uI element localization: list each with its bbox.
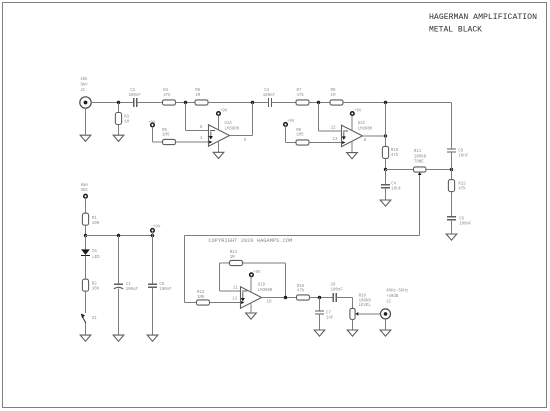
resistor R2 — [82, 279, 88, 291]
svg-text:D1: D1 — [92, 248, 97, 254]
capacitor C4 — [381, 185, 390, 188]
connector J2 output jack — [381, 309, 391, 319]
op-amp U1D LM3900 — [241, 287, 262, 308]
potentiometer R16 LEVEL — [350, 308, 355, 319]
svg-text:100nF: 100nF — [263, 92, 275, 98]
svg-text:13: 13 — [333, 136, 338, 142]
wire down to C7 — [319, 298, 321, 312]
capacitor C6 — [447, 217, 456, 220]
junction U1A feedback node — [184, 101, 187, 104]
svg-text:+9V: +9V — [153, 224, 160, 230]
svg-text:47k: 47k — [391, 152, 398, 158]
junction R3 node — [117, 101, 120, 104]
resistor R5 — [163, 139, 176, 144]
wire R8 to U1C plus input — [309, 142, 342, 144]
wire C6 to ground — [451, 220, 453, 234]
op-amp U1A LM3900 — [209, 125, 230, 146]
wire supply into U1D — [250, 277, 252, 293]
wire R15 to C8 — [310, 297, 334, 299]
ground under U1D — [246, 313, 257, 319]
connector J1 input jack — [80, 97, 91, 108]
wire R10 to tone node — [385, 158, 387, 169]
svg-text:VDC: VDC — [81, 187, 88, 193]
wire U1A output — [230, 135, 253, 137]
wire tone wiper to bottom stage — [185, 235, 420, 237]
resistor R7 — [296, 100, 309, 105]
svg-text:10nF: 10nF — [391, 185, 401, 191]
svg-text:12: 12 — [232, 296, 237, 302]
svg-text:J1: J1 — [80, 87, 85, 93]
svg-text:C1: C1 — [126, 281, 131, 287]
terminal +9V U1C supply — [351, 112, 355, 116]
svg-text:100nF: 100nF — [129, 92, 141, 98]
svg-text:45k: 45k — [80, 76, 87, 82]
wire output up to main — [252, 103, 254, 136]
wire feedback to U1C minus input — [319, 130, 342, 132]
wire R13 to U1D plus input — [210, 302, 241, 304]
wire wiper to J2 — [358, 313, 380, 315]
capacitor C3 — [269, 98, 272, 107]
svg-text:C9: C9 — [159, 281, 164, 287]
wire J1 to ground — [85, 108, 87, 135]
wire to R5 — [153, 141, 163, 143]
svg-text:S1: S1 — [92, 315, 97, 321]
junction C7 node — [318, 296, 321, 299]
wire rail to D1 — [85, 236, 87, 250]
wire C7 to ground — [319, 314, 321, 330]
wire R7 to R9 — [309, 102, 330, 104]
svg-text:3mV: 3mV — [80, 82, 87, 88]
ground under R16 — [347, 330, 358, 336]
wire R4 to R6 — [176, 102, 196, 104]
svg-text:HAGERMAN AMPLIFICATION: HAGERMAN AMPLIFICATION — [429, 13, 537, 22]
svg-text:100: 100 — [92, 220, 99, 226]
junction rail left — [84, 234, 87, 237]
svg-text:1nF: 1nF — [326, 314, 333, 320]
capacitor C2 — [134, 98, 137, 107]
junction C1 node — [117, 234, 120, 237]
resistor R14 — [230, 260, 243, 265]
wire C4 to ground — [385, 188, 387, 200]
svg-text:47k: 47k — [163, 92, 170, 98]
svg-text:R11: R11 — [414, 148, 421, 154]
wire feedback down — [185, 103, 187, 131]
ground under C9 — [147, 335, 158, 341]
wire U1C output — [363, 135, 386, 137]
svg-text:1M5: 1M5 — [296, 132, 303, 138]
ground under U1C — [347, 153, 358, 159]
capacitor C1 polarized — [114, 284, 123, 289]
wire supply into U1C — [351, 115, 353, 130]
resistor R13 — [197, 300, 210, 305]
wire C5 to R12 — [451, 152, 453, 180]
svg-text:+9V: +9V — [354, 107, 361, 113]
ground under C4 — [380, 200, 391, 206]
resistor R1 — [82, 213, 88, 225]
svg-text:U1C: U1C — [358, 120, 365, 126]
wire feedback down stage2 — [318, 103, 320, 132]
wire U1C to ground — [351, 141, 353, 152]
wire terminal stub — [152, 232, 154, 235]
wire VDC to R1 — [85, 198, 87, 213]
capacitor C7 — [315, 311, 324, 314]
wire feedback to U1A minus input — [186, 130, 209, 132]
svg-text:U1A: U1A — [225, 120, 232, 126]
ground under C7 — [314, 330, 325, 336]
wire C1 to ground — [118, 288, 120, 335]
svg-text:6: 6 — [200, 124, 203, 130]
op-amp U1C LM3900 — [342, 125, 363, 146]
capacitor C8 — [333, 293, 336, 302]
svg-text:100nF: 100nF — [159, 286, 171, 292]
R16 wiper arrow — [355, 312, 358, 316]
svg-text:LM3900: LM3900 — [258, 287, 273, 293]
junction U1D output node — [284, 296, 287, 299]
wire down to R16 — [352, 298, 354, 309]
wire C8 right — [336, 297, 352, 299]
wire R11 to C5 node — [426, 169, 452, 171]
svg-text:40Hz-5kHz: 40Hz-5kHz — [386, 288, 408, 294]
svg-text:COPYRIGHT 2020 HAGAMPS.COM: COPYRIGHT 2020 HAGAMPS.COM — [208, 238, 292, 244]
wire down to C5 — [451, 103, 453, 150]
resistor R15 — [297, 295, 310, 300]
wire bias terminal down stage2 — [285, 126, 287, 142]
svg-text:47k: 47k — [297, 288, 304, 294]
resistor R10 — [382, 146, 388, 158]
wire R6 to C3 — [208, 102, 269, 104]
svg-text:8: 8 — [364, 137, 367, 143]
wire R14 to right leg — [243, 262, 286, 264]
wire bias terminal down — [152, 127, 154, 142]
svg-text:METAL BLACK: METAL BLACK — [429, 25, 482, 34]
svg-text:10k: 10k — [92, 285, 99, 291]
wire J2 to ground — [385, 319, 387, 330]
ground under U1A — [213, 152, 224, 158]
wire down to C4 — [385, 170, 387, 185]
svg-text:LM3900: LM3900 — [358, 125, 373, 131]
capacitor C5 — [447, 149, 456, 152]
wire C3 to R7 — [272, 102, 297, 104]
svg-text:LED: LED — [92, 254, 99, 260]
wire R5 to U1A plus input — [176, 141, 209, 143]
terminal +9V stage2 bias — [284, 123, 288, 127]
wire R16 to ground — [352, 319, 354, 330]
svg-text:+9V: +9V — [220, 108, 227, 114]
ground under R3 — [113, 135, 124, 141]
junction C9 node — [151, 234, 154, 237]
wire node to R3 — [118, 103, 120, 113]
junction tone node — [384, 168, 387, 171]
resistor R9 — [330, 100, 343, 105]
wire down left side — [184, 236, 186, 303]
svg-text:1M5: 1M5 — [162, 132, 169, 138]
terminal VDC input — [84, 194, 88, 198]
terminal +9V U1A supply — [217, 112, 221, 116]
wire R12 to C6 — [451, 192, 453, 217]
wire supply into U1A — [218, 115, 220, 130]
svg-text:+9V: +9V — [287, 118, 294, 124]
wire R3 to ground — [118, 125, 120, 136]
junction U1A output node — [251, 101, 254, 104]
R11 wiper arrow — [418, 172, 422, 175]
svg-text:1M: 1M — [230, 254, 235, 260]
wire C9 to ground — [152, 287, 154, 335]
wire tone node to R11 — [386, 169, 414, 171]
svg-text:1: 1 — [200, 135, 203, 141]
junction U1C feedback node — [317, 101, 320, 104]
wire R11 wiper down — [419, 175, 421, 236]
svg-text:11: 11 — [233, 285, 238, 291]
svg-text:100kB: 100kB — [414, 153, 426, 159]
switch S1 — [83, 317, 86, 323]
svg-text:5: 5 — [244, 137, 247, 143]
svg-text:47k: 47k — [458, 185, 465, 191]
resistor R8 — [296, 140, 309, 145]
svg-text:+9V: +9V — [253, 269, 260, 275]
svg-text:47k: 47k — [297, 92, 304, 98]
terminal +9V stage1 bias — [151, 123, 155, 127]
terminal +9V U1D supply — [250, 273, 254, 277]
svg-text:10nF: 10nF — [458, 152, 468, 158]
resistor R6 — [195, 100, 208, 105]
resistor R4 — [163, 100, 176, 105]
wire to R13 — [185, 302, 197, 304]
ground under C6 — [446, 234, 457, 240]
wire rail to C1 — [118, 236, 120, 285]
wire S1 to ground — [85, 323, 87, 335]
svg-text:LEVEL: LEVEL — [359, 302, 371, 308]
svg-text:100nF: 100nF — [459, 221, 471, 227]
junction U1C output node — [384, 101, 387, 104]
svg-text:J2: J2 — [386, 298, 391, 304]
wire R1 to rail — [85, 225, 87, 235]
wire to R14 — [220, 262, 230, 264]
wire output node vertical — [385, 103, 387, 147]
wire feedback left leg — [219, 263, 221, 291]
resistor R12 — [448, 180, 454, 192]
wire feedback right leg down — [285, 263, 287, 298]
capacitor C9 — [148, 284, 157, 287]
wire U1D output — [262, 297, 297, 299]
svg-text:TONE: TONE — [414, 158, 424, 164]
svg-text:1M5: 1M5 — [197, 294, 204, 300]
wire rail to C9 — [152, 236, 154, 285]
wire J1 to C2 — [91, 102, 134, 104]
svg-text:1M: 1M — [331, 92, 336, 98]
svg-text:1M: 1M — [124, 118, 129, 124]
ground under C1 — [113, 335, 124, 341]
wire +9V rail — [86, 235, 153, 237]
svg-text:U1D: U1D — [258, 282, 265, 288]
junction C5 R12 node — [450, 168, 453, 171]
svg-text:C6: C6 — [459, 215, 464, 221]
svg-text:+9V: +9V — [148, 119, 155, 125]
svg-text:1M: 1M — [195, 92, 200, 98]
wire R2 to S1 — [85, 291, 87, 313]
svg-text:12: 12 — [331, 124, 336, 130]
ground under J2 — [380, 330, 391, 336]
wire U1D minus input — [220, 290, 241, 292]
ground under S1 — [80, 335, 91, 341]
wire D1 to R2 — [85, 256, 87, 280]
svg-text:10: 10 — [267, 298, 272, 304]
resistor R3 — [115, 113, 121, 125]
wire to R8 — [286, 142, 297, 144]
wire U1A to ground — [218, 141, 220, 153]
potentiometer R11 TONE — [414, 167, 426, 172]
ground under J1 — [80, 135, 91, 141]
terminal +9V rail — [151, 229, 155, 233]
junction U1C output tee — [384, 134, 387, 137]
svg-text:100nF: 100nF — [331, 286, 343, 292]
wire R9 to right column — [343, 102, 452, 104]
LED D1 — [81, 249, 90, 255]
wire C2 to R4 — [137, 102, 163, 104]
wire U1D to ground — [250, 302, 252, 313]
svg-text:LM3900: LM3900 — [225, 126, 240, 132]
svg-text:100uF: 100uF — [126, 286, 138, 292]
svg-text:+40dB: +40dB — [386, 293, 398, 299]
